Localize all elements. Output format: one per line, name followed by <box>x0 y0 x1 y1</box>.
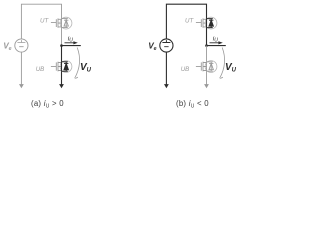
wire: UT source to node U <box>206 28 208 46</box>
body diode of UT <box>62 19 69 28</box>
transistor UT gate and channel <box>51 18 62 27</box>
wire: source top to UT drain <box>166 4 206 39</box>
transistor UB rail through symbol <box>206 62 208 71</box>
transistor UT gate and channel <box>196 18 207 27</box>
svg-text:iU: iU <box>68 35 73 43</box>
transistor UB envelope circle <box>60 61 72 73</box>
wire: UB source to ground <box>61 71 63 84</box>
voltage arrow arc VU <box>75 48 80 79</box>
wire: source bottom to ground <box>165 52 167 85</box>
svg-text:UT: UT <box>40 18 49 25</box>
ground arrow below UB <box>59 84 64 88</box>
transistor UB gate and channel <box>196 62 207 72</box>
transistor UT rail through symbol <box>206 19 208 28</box>
transistor UB gate and channel <box>51 62 62 72</box>
current arrow iU <box>65 42 75 44</box>
ground arrow below source <box>19 84 24 88</box>
body diode of UT <box>207 19 214 28</box>
voltage arrow arc VU <box>220 48 225 79</box>
node U junction dot <box>205 44 208 47</box>
wire: node U to UB drain <box>61 46 63 62</box>
svg-text:UB: UB <box>36 66 45 73</box>
voltage source Ve <box>15 39 28 52</box>
transistor UT rail through symbol <box>61 19 63 28</box>
output wire at node U <box>207 45 226 47</box>
current arrow iU <box>210 42 220 44</box>
transistor UT envelope circle <box>205 17 217 29</box>
transistor UB rail through symbol <box>61 62 63 71</box>
ground arrow below source <box>164 84 169 88</box>
wire: UT source to node U <box>61 28 63 46</box>
ground arrow below UB <box>204 84 209 88</box>
wire: source bottom to ground <box>20 52 22 85</box>
voltage source Ve <box>160 39 173 52</box>
svg-text:UT: UT <box>185 18 194 25</box>
body diode of UB <box>62 62 69 71</box>
svg-text:UB: UB <box>181 66 190 73</box>
body diode of UB <box>207 62 214 71</box>
svg-text:iU: iU <box>213 35 218 43</box>
transistor UT envelope circle <box>60 17 72 29</box>
wire: node U to UB drain <box>206 46 208 62</box>
wire: source top to UT drain <box>21 4 61 39</box>
transistor UB envelope circle <box>205 61 217 73</box>
node U junction dot <box>60 44 63 47</box>
output wire at node U <box>62 45 81 47</box>
wire: UB source to ground <box>206 71 208 84</box>
